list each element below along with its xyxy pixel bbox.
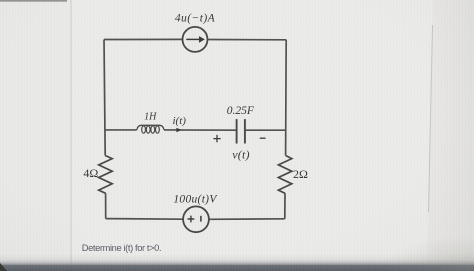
svg-text:0.25F: 0.25F [227, 105, 255, 117]
inductor L1 hump [137, 125, 164, 130]
wire right vertical lower [284, 193, 286, 219]
wire right vertical upper [285, 40, 288, 156]
voltage source bar [200, 216, 202, 222]
voltage source V1 circle [183, 206, 209, 232]
inductor L1 loops [142, 126, 146, 133]
current source arrow [186, 38, 200, 40]
wire top-right horizontal [208, 39, 287, 41]
left panel strip [0, 0, 71, 271]
wire bottom-right horizontal [209, 218, 285, 221]
voltage source plus sign [188, 216, 195, 223]
svg-text:1H: 1H [144, 112, 157, 123]
wire middle right segment [245, 129, 286, 131]
faint diagonal line right [429, 25, 433, 212]
capacitor C1 right plate [244, 119, 246, 143]
wire left vertical upper [104, 40, 105, 156]
wire top-left horizontal [104, 38, 183, 40]
capacitor plus sign [213, 135, 220, 142]
current source U1 circle [183, 27, 208, 52]
svg-text:100u(t)V: 100u(t)V [173, 194, 218, 206]
wire bottom-left horizontal [106, 218, 184, 221]
svg-text:v(t): v(t) [232, 148, 249, 162]
capacitor minus sign [260, 137, 266, 139]
top-left dark edge [0, 0, 67, 2]
svg-text:2Ω: 2Ω [293, 167, 308, 181]
wire left vertical lower [105, 193, 107, 218]
bottom-left dark wedge [0, 263, 7, 271]
svg-text:4Ω: 4Ω [83, 166, 98, 180]
panel divider line [71, 0, 72, 271]
svg-text:Determine i(t) for t>0.: Determine i(t) for t>0. [82, 243, 161, 253]
resistor R1 4ohm zigzag [99, 156, 113, 194]
resistor R2 2ohm zigzag [278, 156, 291, 194]
svg-text:i(t): i(t) [172, 115, 186, 127]
svg-text:4u(−t)A: 4u(−t)A [175, 13, 216, 25]
arrow i(t) [176, 128, 181, 133]
capacitor C1 left plate [236, 119, 238, 143]
wire middle left segment [105, 129, 137, 131]
wire middle mid segment [164, 129, 237, 131]
